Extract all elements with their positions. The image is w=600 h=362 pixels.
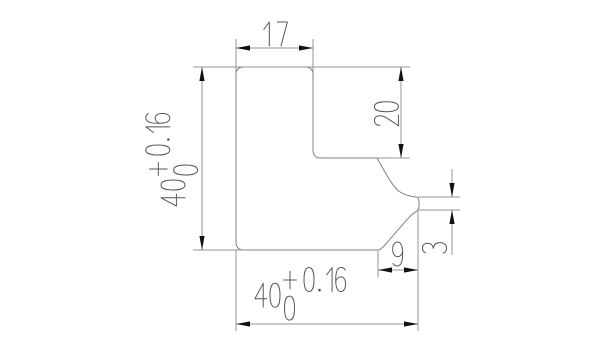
arrowhead 3 bottom pointing up [449, 210, 454, 224]
extension line: step y=158.5 [377, 157, 410, 159]
arrowhead 40-bottom left [236, 321, 250, 326]
dim text 40 +0.16/0 bottom [255, 268, 346, 321]
extension line: left of 9-dim x=378 [377, 251, 379, 278]
dimension line 3 lower leg [451, 210, 453, 255]
extension line: left x=236 below shape (bottom 40-dim) [235, 250, 237, 331]
arrowhead 40-left bottom [199, 236, 204, 250]
arrowhead 40-bottom right [404, 321, 418, 326]
dimension line 9 [378, 269, 418, 271]
extension line: left x=236 above shape (17-dim) [235, 39, 237, 75]
arrowhead 3 top pointing down [449, 183, 454, 197]
extension line: neck bottom y=209.7 [419, 209, 461, 211]
part outline [236, 67, 419, 250]
arrowhead 20 bottom [398, 144, 403, 158]
extension line: right x=418.3 below neck [417, 210, 419, 331]
dimension line 17 [236, 47, 313, 49]
extension line: neck top y=197.4 [419, 196, 461, 198]
dim text 40 +0.16/0 left (rotated) [146, 113, 198, 206]
extension line: bottom edge y=249.8 [193, 249, 244, 251]
extension line: right of 17-dim x=313 [312, 39, 314, 75]
dim text 17 [264, 22, 288, 46]
dim text 20 (rotated) [374, 102, 398, 126]
arrowhead 40-left top [199, 67, 204, 81]
arrowhead 17 right [299, 45, 313, 50]
arrowhead 17 left [236, 45, 250, 50]
dimension line 3 upper leg [451, 169, 453, 197]
dimension line 40 bottom [236, 323, 418, 325]
arrowhead 9 right [404, 267, 418, 272]
arrowhead 20 top [398, 67, 403, 81]
extension line: top edge y=67 [193, 66, 410, 68]
dimension line 20 [400, 67, 402, 158]
dim text 3 (rotated) [423, 243, 447, 254]
dim text 9 [393, 242, 403, 266]
dimension line 40 left [201, 67, 203, 250]
arrowhead 9 left [378, 267, 392, 272]
